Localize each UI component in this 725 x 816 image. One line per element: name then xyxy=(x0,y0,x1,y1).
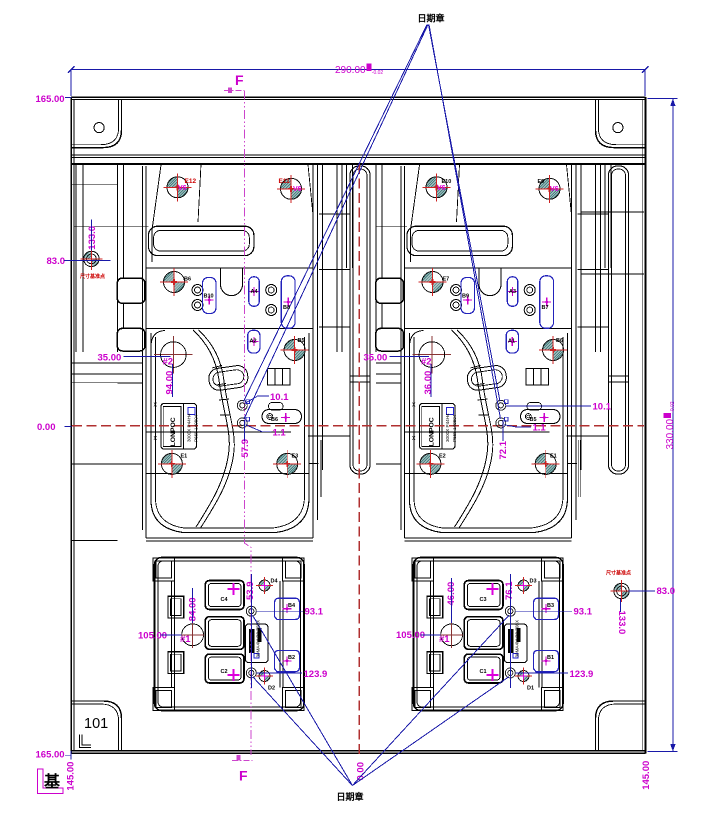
sprue circle right upper xyxy=(496,400,506,410)
145.00 bottom left rotated xyxy=(66,762,77,791)
connector block right xyxy=(412,558,563,711)
LONPOC label text left xyxy=(170,417,177,446)
57.9 left rotated xyxy=(240,439,251,458)
svg-text:E7: E7 xyxy=(443,277,450,283)
svg-text:290.00: 290.00 xyxy=(335,65,366,76)
svg-text:123.9: 123.9 xyxy=(304,669,328,680)
svg-text:B6: B6 xyxy=(184,277,191,283)
block sprue circles xyxy=(246,606,256,616)
bottom leaders xyxy=(253,615,509,785)
84.00 left rotated xyxy=(187,597,198,621)
svg-text:F: F xyxy=(239,768,248,784)
center line vertical xyxy=(358,164,360,757)
svg-text:尺寸基准点: 尺寸基准点 xyxy=(80,273,105,280)
svg-text:LONPOC: LONPOC xyxy=(428,417,435,446)
sprue circle left upper xyxy=(237,400,247,410)
svg-text:E10: E10 xyxy=(442,179,452,185)
svg-text:76.1: 76.1 xyxy=(504,581,515,600)
46.00 right rotated xyxy=(446,582,457,606)
133.0 right rotated xyxy=(616,611,627,635)
plate left edge double xyxy=(70,97,72,754)
svg-text:x: x xyxy=(412,402,416,409)
svg-text:x: x xyxy=(154,435,158,442)
bold magenta crosses on squares xyxy=(228,583,240,595)
72.1 right rotated xyxy=(498,440,509,459)
svg-text:基: 基 xyxy=(43,772,61,791)
hatched circle E11 xyxy=(277,175,305,203)
svg-text:1.1: 1.1 xyxy=(533,422,547,433)
plate bottom edge double xyxy=(71,750,645,752)
svg-text:53.9: 53.9 xyxy=(245,582,256,601)
svg-text:57.9: 57.9 xyxy=(240,439,251,458)
36.00 right rotated xyxy=(423,371,434,395)
svg-text:105.00: 105.00 xyxy=(396,630,425,641)
svg-text:P668 140804: P668 140804 xyxy=(452,414,457,442)
top-left corner notch xyxy=(72,100,122,148)
hatched circle B5 xyxy=(281,336,309,364)
svg-text:日期章: 日期章 xyxy=(337,791,364,802)
145.00 bottom right rotated xyxy=(641,761,652,790)
left datum circle xyxy=(80,248,102,270)
330.00 text rotated xyxy=(664,401,677,449)
svg-text:V6: V6 xyxy=(293,186,302,193)
center line horizontal xyxy=(72,425,644,427)
svg-text:B3: B3 xyxy=(547,603,554,609)
svg-text:10.1: 10.1 xyxy=(270,392,289,403)
svg-text:E3: E3 xyxy=(292,454,299,460)
bottom-right corner notch xyxy=(596,701,646,751)
svg-text:36.00: 36.00 xyxy=(423,371,434,395)
svg-text:C4: C4 xyxy=(221,597,229,603)
svg-text:-0.02: -0.02 xyxy=(670,401,676,413)
svg-text:日期章: 日期章 xyxy=(418,13,445,24)
sprue circle left lower xyxy=(237,418,247,428)
hatched circle E12 xyxy=(164,173,192,201)
svg-text:E12: E12 xyxy=(185,178,197,185)
capsule cross left/right xyxy=(281,413,290,422)
133.0 left rotated xyxy=(87,226,98,250)
F flag top xyxy=(224,89,244,91)
svg-text:F: F xyxy=(235,72,244,88)
hatched circle D4 xyxy=(256,577,273,594)
svg-text:#2: #2 xyxy=(163,356,174,367)
svg-text:93.1: 93.1 xyxy=(305,607,324,618)
svg-text:133.0: 133.0 xyxy=(616,611,627,635)
hatched circle E2 xyxy=(416,450,444,478)
53.9 left rotated xyxy=(245,582,256,601)
upper cavity cell right xyxy=(376,164,629,541)
svg-text:E9: E9 xyxy=(538,179,545,185)
svg-text:D3: D3 xyxy=(530,579,537,585)
F section line xyxy=(244,90,251,755)
top band thick line xyxy=(71,163,645,165)
svg-text:B5: B5 xyxy=(298,338,305,344)
svg-text:B8: B8 xyxy=(283,305,290,311)
hatched circle D2 xyxy=(256,668,273,685)
svg-text:B2: B2 xyxy=(288,655,295,661)
top-left notch hole xyxy=(94,123,104,133)
svg-text:93.1: 93.1 xyxy=(574,607,593,618)
svg-text:A4: A4 xyxy=(251,289,259,295)
plate right edge double xyxy=(644,97,646,754)
sprue blue ticks xyxy=(246,400,508,421)
left rail verticals xyxy=(76,164,83,352)
top leaders xyxy=(244,25,501,420)
svg-text:B6: B6 xyxy=(556,338,563,344)
svg-text:101: 101 xyxy=(84,716,108,732)
svg-text:B4: B4 xyxy=(288,603,296,609)
svg-text:#2: #2 xyxy=(421,356,432,367)
svg-text:E1: E1 xyxy=(550,454,557,460)
svg-text:30MA4M-B8 708X: 30MA4M-B8 708X xyxy=(515,620,520,658)
top-right corner notch xyxy=(596,100,646,148)
svg-text:123.9: 123.9 xyxy=(570,669,594,680)
bottom-left corner notch xyxy=(72,701,122,751)
0.00 bottom center rotated xyxy=(356,762,367,781)
svg-text:83.0: 83.0 xyxy=(47,256,66,267)
svg-text:145.00: 145.00 xyxy=(66,762,77,791)
svg-text:V6: V6 xyxy=(550,186,559,193)
svg-text:C2: C2 xyxy=(221,669,228,675)
upper cavity cell left xyxy=(117,164,370,541)
svg-text:133.0: 133.0 xyxy=(87,226,98,250)
svg-text:尺寸基准点: 尺寸基准点 xyxy=(606,570,631,577)
svg-text:A3: A3 xyxy=(509,289,516,295)
svg-text:#1: #1 xyxy=(439,634,450,645)
plate top edge double xyxy=(71,96,645,98)
svg-text:E1: E1 xyxy=(181,454,188,460)
svg-text:E2: E2 xyxy=(439,454,446,460)
svg-text:83.0: 83.0 xyxy=(657,586,676,597)
datum L symbol magenta xyxy=(38,769,64,794)
svg-text:145.00: 145.00 xyxy=(641,761,652,790)
svg-text:30MA4M-B8 708X: 30MA4M-B8 708X xyxy=(256,620,261,658)
svg-text:B9: B9 xyxy=(462,294,469,300)
pin cross markers upper cells xyxy=(205,296,214,305)
hatched circle D3 xyxy=(515,577,532,594)
hatched circle B6 xyxy=(160,268,188,296)
hatched circle E1 xyxy=(158,450,186,478)
svg-text:0.00: 0.00 xyxy=(37,422,56,433)
guide pin bushings (blue) xyxy=(203,276,554,353)
id circles #2 xyxy=(161,342,187,368)
svg-text:x: x xyxy=(154,402,158,409)
svg-text:105.00: 105.00 xyxy=(138,630,167,641)
svg-text:E11: E11 xyxy=(279,178,291,185)
svg-text:10.1: 10.1 xyxy=(593,402,612,413)
small block label texts rotated xyxy=(256,620,261,658)
svg-text:C1: C1 xyxy=(480,669,487,675)
svg-text:LONPOC: LONPOC xyxy=(170,417,177,446)
plate outline xyxy=(71,97,645,754)
svg-text:35.00: 35.00 xyxy=(98,352,122,363)
svg-text:B5: B5 xyxy=(530,417,537,423)
svg-text:C3: C3 xyxy=(480,597,487,603)
svg-text:165.00: 165.00 xyxy=(36,94,65,105)
94.00 left rotated xyxy=(165,371,176,395)
svg-text:x: x xyxy=(412,435,416,442)
hatched circle E10 xyxy=(423,173,451,201)
bottom-left L datum mark xyxy=(80,735,92,748)
svg-text:V6: V6 xyxy=(178,185,187,192)
svg-text:-0.02: -0.02 xyxy=(372,70,384,76)
svg-text:3000X P44H4: 3000X P44H4 xyxy=(445,413,450,442)
right rail horizontals xyxy=(581,212,644,274)
top band lines xyxy=(71,154,645,156)
svg-text:330.00: 330.00 xyxy=(665,418,676,449)
hatched circle E4 xyxy=(532,450,560,478)
hatched circle D1 xyxy=(515,668,532,685)
right datum circle xyxy=(611,580,633,602)
svg-text:P668 140804: P668 140804 xyxy=(194,414,199,442)
sprue circle right lower xyxy=(496,418,506,428)
svg-text:3000X P44H4: 3000X P44H4 xyxy=(187,413,192,442)
svg-text:165.00: 165.00 xyxy=(36,750,65,761)
svg-text:B7: B7 xyxy=(542,305,549,311)
magenta V6 marks on top circles xyxy=(178,185,559,193)
right dim line 330.00 xyxy=(648,98,678,751)
svg-text:D4: D4 xyxy=(271,579,279,585)
id circle crosshairs (dark red) xyxy=(154,336,463,648)
left rail horizontals xyxy=(71,184,117,540)
block blue boxes B4 B2 xyxy=(275,598,559,672)
svg-text:B10: B10 xyxy=(204,294,214,300)
svg-text:A2: A2 xyxy=(250,339,257,345)
top dim line 290.00 xyxy=(68,66,649,96)
svg-text:A1: A1 xyxy=(508,339,515,345)
connector block left xyxy=(153,558,304,711)
LONPOC label text right xyxy=(428,417,435,446)
hatched circle E9 xyxy=(536,175,564,203)
svg-text:1.1: 1.1 xyxy=(273,427,287,438)
crosses in blue boxes xyxy=(283,604,292,613)
svg-text:V6: V6 xyxy=(437,185,446,192)
svg-text:94.00: 94.00 xyxy=(165,371,176,395)
svg-text:#1: #1 xyxy=(180,634,191,645)
svg-text:B6: B6 xyxy=(271,417,278,423)
svg-text:B1: B1 xyxy=(547,655,554,661)
F flag bottom xyxy=(232,760,252,762)
svg-text:D1: D1 xyxy=(527,686,534,692)
svg-text:72.1: 72.1 xyxy=(498,440,509,459)
svg-text:35.00: 35.00 xyxy=(364,352,388,363)
hatched circle B5r xyxy=(539,336,567,364)
svg-text:D2: D2 xyxy=(268,686,275,692)
hatched circle E3 xyxy=(273,450,301,478)
76.1 right rotated xyxy=(504,581,515,600)
hatched circle E7 xyxy=(419,268,447,296)
top-right notch hole xyxy=(613,123,623,133)
